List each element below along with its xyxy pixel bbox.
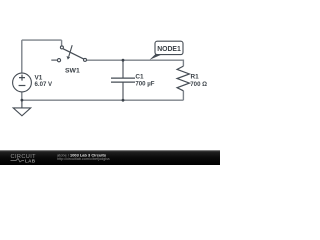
footer logo waveform: [11, 159, 25, 163]
svg-text:http://circuitlab.com/c/befjod: http://circuitlab.com/c/befjodgba: [57, 156, 110, 161]
voltage source V1: [13, 73, 32, 92]
wire: R1 bottom lead: [182, 91, 184, 100]
svg-text:700 µF: 700 µF: [135, 81, 154, 88]
switch arrow head: [67, 56, 71, 60]
svg-text:NODE1: NODE1: [157, 44, 181, 53]
capacitor C1: [111, 60, 135, 100]
switch SW1: [51, 45, 86, 62]
svg-text:LAB: LAB: [25, 158, 36, 163]
svg-text:6.07 V: 6.07 V: [35, 81, 54, 88]
wire: drop to switch: [61, 40, 63, 46]
svg-text:SW1: SW1: [65, 67, 80, 74]
wire: left rail: [21, 40, 23, 73]
node: C1 top junction: [122, 59, 125, 62]
resistor R1: [177, 66, 189, 91]
ground: [13, 100, 31, 116]
svg-text:R1: R1: [191, 74, 200, 81]
node: ground junction dot: [21, 99, 24, 102]
wire: top left horizontal: [22, 39, 62, 41]
footer bar: [0, 150, 220, 165]
node: C1 bottom junction: [122, 99, 125, 102]
svg-text:700 Ω: 700 Ω: [190, 81, 207, 88]
node flag NODE1 box: [155, 41, 183, 54]
node flag NODE1 pointer: [150, 54, 164, 60]
wire: switch to R1 top: [87, 60, 184, 66]
wire: bottom rail: [22, 99, 184, 101]
wire: V1 bottom to ground junction: [21, 92, 23, 100]
